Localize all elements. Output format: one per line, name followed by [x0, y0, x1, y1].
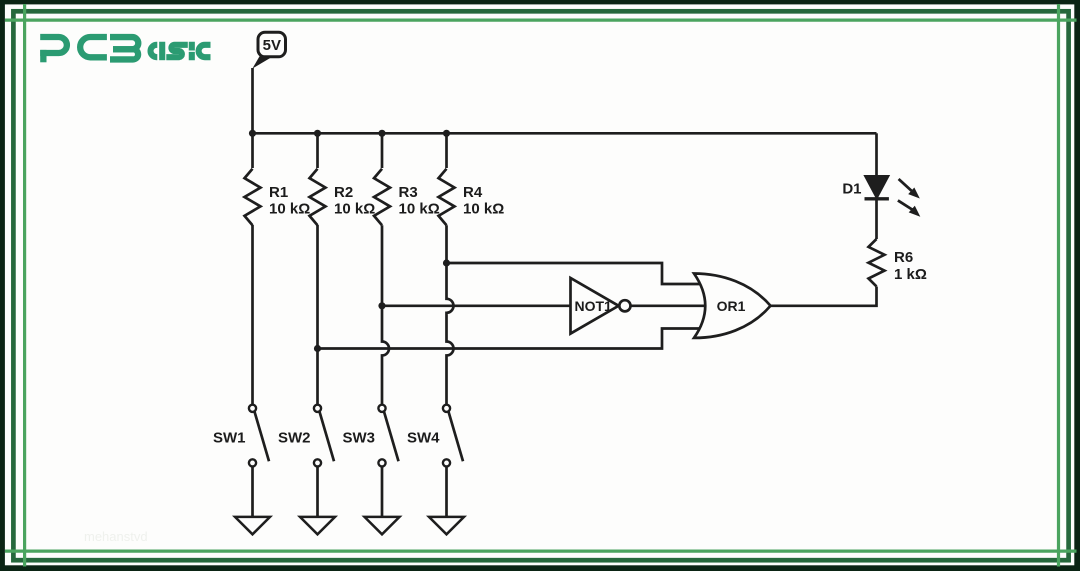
logo letter i [189, 42, 195, 60]
ground (SW2) [300, 517, 335, 534]
svg-text:1 kΩ: 1 kΩ [894, 266, 927, 283]
resistor R1 [245, 169, 261, 225]
node bus/R3 [378, 130, 385, 137]
led D1 [875, 133, 878, 176]
wire top OR input from R4 node [447, 263, 704, 284]
op NOT gate NOT1 [571, 278, 619, 334]
node R2 tap [314, 345, 321, 352]
svg-text:10 kΩ: 10 kΩ [334, 201, 375, 218]
resistor R3 [374, 169, 390, 225]
wire SW4 to ground [445, 467, 448, 517]
resistor R4 [439, 169, 455, 225]
5V supply flag [252, 32, 285, 68]
switch SW4 [407, 405, 463, 467]
svg-text:R1: R1 [269, 184, 288, 201]
wire SW1 to ground [251, 467, 254, 517]
logo letter c [199, 45, 211, 57]
led light arrow 2 [898, 200, 920, 216]
svg-text:SW1: SW1 [213, 429, 246, 446]
svg-text:R3: R3 [399, 184, 418, 201]
wire 5V to bus [251, 68, 254, 133]
wire power bus [253, 132, 877, 135]
wire SW3 to ground [381, 467, 384, 517]
wire column R2 [316, 133, 319, 168]
ground (SW4) [429, 517, 464, 534]
led light arrow 1 [899, 179, 920, 199]
svg-text:10 kΩ: 10 kΩ [463, 201, 504, 218]
wire NOT1 output to OR1 [630, 304, 705, 307]
wire bottom OR input from R2 node [318, 329, 704, 349]
logo letter C [80, 37, 107, 57]
wire column R1 [251, 133, 254, 168]
wire OR1 output to LED branch [771, 287, 877, 306]
svg-text:R6: R6 [894, 249, 913, 266]
svg-text:mehanstvd: mehanstvd [84, 529, 148, 544]
junction dots [249, 130, 450, 352]
svg-text:OR1: OR1 [717, 298, 746, 314]
wire column R4 (hops middle and bottom wires) [445, 133, 448, 168]
logo letter P [40, 37, 67, 53]
svg-text:5V: 5V [263, 37, 281, 54]
logo letter s [166, 45, 188, 57]
node bus/R1 [249, 130, 256, 137]
node bus/R4 [443, 130, 450, 137]
switch SW2 [278, 405, 334, 467]
svg-text:D1: D1 [842, 181, 861, 198]
resistor R6 [869, 239, 885, 286]
logo letter a [151, 45, 158, 57]
svg-text:SW3: SW3 [342, 429, 375, 446]
wire SW2 to ground [316, 467, 319, 517]
switch SW1 [213, 405, 269, 467]
PCBasic logo [40, 37, 138, 62]
resistor R2 [310, 169, 326, 225]
logo letter B [110, 37, 138, 49]
svg-text:10 kΩ: 10 kΩ [399, 201, 440, 218]
ground (SW1) [235, 517, 270, 534]
wire column R3 (hops bottom wire) [381, 133, 384, 168]
svg-text:R2: R2 [334, 184, 353, 201]
wire middle from R3 node to NOT1 input [382, 304, 571, 307]
or-gate OR1 [694, 274, 771, 338]
node bus/R2 [314, 130, 321, 137]
switch SW3 [342, 405, 398, 467]
svg-text:10 kΩ: 10 kΩ [269, 201, 310, 218]
ground (SW3) [365, 517, 400, 534]
svg-text:NOT1: NOT1 [575, 298, 613, 314]
node R4 tap [443, 259, 450, 266]
node R3 tap [378, 302, 385, 309]
svg-text:SW2: SW2 [278, 429, 311, 446]
svg-text:SW4: SW4 [407, 429, 440, 446]
svg-text:R4: R4 [463, 184, 483, 201]
